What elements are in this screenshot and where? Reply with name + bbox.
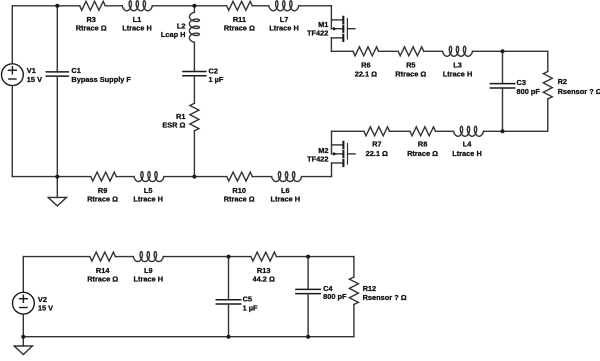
- svg-text:Rtrace Ω: Rtrace Ω: [395, 70, 426, 79]
- svg-text:1 µF: 1 µF: [243, 304, 258, 313]
- svg-text:15 V: 15 V: [38, 304, 53, 313]
- svg-text:Rtrace Ω: Rtrace Ω: [76, 23, 107, 32]
- svg-text:TF422: TF422: [307, 155, 328, 164]
- svg-text:Rsensor ? Ω: Rsensor ? Ω: [558, 87, 600, 96]
- svg-text:C5: C5: [243, 295, 252, 304]
- svg-text:Ltrace H: Ltrace H: [271, 195, 301, 204]
- svg-text:L3: L3: [453, 61, 462, 70]
- svg-text:1 µF: 1 µF: [209, 75, 224, 84]
- svg-text:L4: L4: [463, 140, 473, 149]
- svg-text:C3: C3: [517, 78, 526, 87]
- svg-text:V1: V1: [27, 66, 36, 75]
- svg-text:15 V: 15 V: [27, 75, 42, 84]
- svg-text:Ltrace H: Ltrace H: [443, 70, 473, 79]
- svg-text:800 pF: 800 pF: [517, 87, 541, 96]
- svg-text:Ltrace H: Ltrace H: [122, 23, 152, 32]
- svg-text:22.1 Ω: 22.1 Ω: [355, 70, 377, 79]
- svg-text:Rtrace Ω: Rtrace Ω: [87, 275, 118, 284]
- svg-text:Ltrace H: Ltrace H: [133, 195, 163, 204]
- svg-text:ESR Ω: ESR Ω: [162, 121, 185, 130]
- svg-text:Ltrace H: Ltrace H: [269, 23, 299, 32]
- svg-text:22.1 Ω: 22.1 Ω: [366, 149, 388, 158]
- svg-text:800 pF: 800 pF: [323, 292, 347, 301]
- svg-text:Lcap H: Lcap H: [161, 30, 186, 39]
- svg-text:R12: R12: [363, 284, 377, 293]
- svg-text:C2: C2: [209, 66, 218, 75]
- svg-text:Rtrace Ω: Rtrace Ω: [407, 149, 438, 158]
- svg-text:44.2 Ω: 44.2 Ω: [253, 275, 275, 284]
- svg-text:Ltrace H: Ltrace H: [452, 149, 482, 158]
- svg-text:R8: R8: [418, 140, 427, 149]
- svg-text:Rsensor ? Ω: Rsensor ? Ω: [363, 293, 407, 302]
- svg-text:Rtrace Ω: Rtrace Ω: [224, 23, 255, 32]
- svg-text:R2: R2: [558, 77, 567, 86]
- svg-text:R7: R7: [372, 140, 381, 149]
- svg-text:R6: R6: [361, 61, 370, 70]
- svg-text:Ltrace H: Ltrace H: [134, 275, 164, 284]
- svg-text:TF422: TF422: [307, 29, 328, 38]
- svg-text:Rtrace Ω: Rtrace Ω: [224, 195, 255, 204]
- svg-text:Rtrace Ω: Rtrace Ω: [87, 195, 118, 204]
- svg-text:C1: C1: [71, 66, 80, 75]
- svg-text:V2: V2: [38, 295, 47, 304]
- svg-text:R5: R5: [406, 61, 415, 70]
- svg-text:Bypass Supply F: Bypass Supply F: [71, 75, 131, 84]
